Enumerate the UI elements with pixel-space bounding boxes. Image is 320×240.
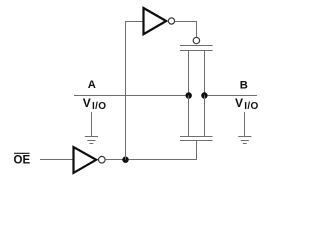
ground (B side): [238, 112, 251, 144]
inverter U1 output bubble: [168, 18, 174, 24]
wire: B-side rail: [204, 95, 257, 97]
junction: node A / pass-gate: [186, 92, 192, 98]
svg-text:B: B: [240, 80, 248, 92]
pmos Q1 channel bar: [180, 50, 213, 52]
pmos Q1 gate bubble: [193, 37, 199, 43]
inverter U2 output bubble: [99, 156, 106, 163]
wire: OE overbar: [14, 152, 30, 154]
nmos Q2 channel bar: [180, 136, 213, 138]
svg-text:VI/O: VI/O: [83, 96, 107, 112]
nmos Q2 gate bar: [180, 140, 213, 142]
wire: U2 output to NMOS gate: [105, 141, 196, 160]
wire: Q1 drain drop to node B: [204, 51, 206, 96]
wire: A-side rail: [74, 95, 189, 97]
wire: U1 output to PMOS gate bubble: [175, 22, 197, 37]
svg-text:OE: OE: [14, 155, 31, 167]
wire: Q1 source drop to node A: [188, 51, 190, 96]
inverter U1 (gate drive, top): [144, 8, 167, 34]
inverter U2 (OE buffer): [74, 147, 97, 173]
junction: node B / pass-gate: [201, 92, 207, 98]
ground (A side): [85, 112, 98, 144]
wire: node A to NMOS Q2 source: [188, 96, 190, 137]
wire: node B to NMOS Q2 drain: [204, 96, 206, 137]
svg-text:A: A: [88, 79, 96, 91]
junction: U2 output / U1 input: [122, 157, 128, 163]
wire: up to top inverter U1 input: [126, 22, 144, 160]
wire: OE input to inverter U2: [40, 159, 73, 161]
svg-text:VI/O: VI/O: [235, 96, 259, 112]
pmos Q1 gate bar: [180, 45, 213, 47]
